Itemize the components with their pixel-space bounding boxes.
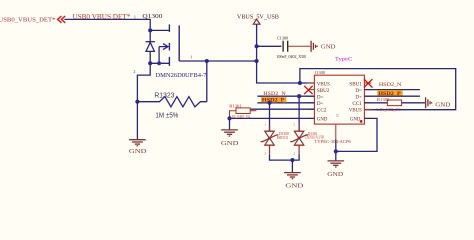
svg-text:VBUS_5V_USB: VBUS_5V_USB [237, 15, 279, 21]
pin GND right [350, 117, 361, 123]
ground GND5 label [285, 184, 304, 190]
wire drain lead [150, 29, 169, 31]
ground GND1 [129, 140, 146, 146]
capacitor C1300 [283, 41, 310, 52]
pin dot GND right [360, 120, 363, 123]
pin stubs left side [307, 83, 314, 118]
node cap junction [255, 44, 259, 48]
svg-text:13: 13 [335, 113, 339, 117]
resistor R1301 box [230, 108, 257, 119]
svg-text:TYPEC-304-ACP6: TYPEC-304-ACP6 [314, 139, 351, 144]
value 1M 5% [155, 110, 179, 119]
wire to GND3 [229, 118, 231, 129]
pin CC1 right [352, 101, 362, 107]
pin 2 D1301 [293, 152, 295, 156]
pin number 1 (gate net) [134, 14, 136, 19]
svg-text:1: 1 [134, 14, 136, 19]
svg-text:C1300: C1300 [277, 35, 288, 40]
svg-text:GND: GND [221, 141, 239, 147]
net label USB0 VBUS DET* [72, 12, 130, 21]
svg-text:GND: GND [317, 117, 328, 123]
svg-text:D=: D= [317, 95, 324, 101]
wire ESD diodes to GND [270, 154, 300, 160]
svg-text:GND: GND [327, 172, 344, 178]
node CC2 resistor GND junction [227, 116, 231, 120]
pin 1 D1301 [293, 123, 295, 127]
body diode of Q1300 [146, 30, 155, 63]
svg-text:DMN26D0UFB4-7: DMN26D0UFB4-7 [155, 73, 206, 79]
no connect X on SBU1 [364, 79, 372, 87]
wire VBUS to connector right pin [300, 69, 456, 110]
pin VBUS left [317, 81, 330, 87]
node VBUS rail junction [255, 59, 259, 63]
wire ESD GND drop [291, 160, 293, 172]
designator R1300 [377, 97, 390, 102]
wire gate to net [179, 60, 207, 62]
diode D1300 TVS [261, 125, 279, 154]
ground GND4 [328, 161, 345, 167]
designator Q1300 [142, 14, 162, 20]
wire VBUS to C1300 [257, 45, 282, 47]
svg-text:D+: D+ [355, 95, 362, 101]
connector J1300 box [314, 75, 364, 124]
wire GND bottom to junction [335, 139, 337, 160]
net label HSD2_P right highlighted [377, 90, 402, 97]
transistor Q1300 arrow [159, 44, 168, 64]
svg-text:5.1K_0402_1%: 5.1K_0402_1% [229, 114, 250, 119]
pin GND left [317, 117, 328, 123]
shell pin mark [335, 113, 339, 117]
node connector GND junction [334, 149, 338, 153]
node D- ESD junction [297, 94, 301, 98]
svg-text:GND: GND [285, 184, 304, 190]
port USB0_VBUS_DET* [0, 16, 55, 23]
pin CC2 left [317, 108, 327, 114]
ground GND2 label [321, 45, 336, 51]
value 5.1K left [229, 114, 250, 119]
ground GND3 label [221, 141, 239, 147]
svg-text:HSD2_P: HSD2_P [262, 99, 285, 104]
wire D- left (HSD2_N) [257, 95, 314, 97]
svg-text:5.1K_0402_1%: 5.1K_0402_1% [376, 107, 400, 112]
wire HSD2_P right [364, 95, 420, 97]
ground GND2 sideways [311, 41, 317, 52]
value ESD5311N left [277, 136, 289, 140]
node VBUS branch junction [298, 81, 302, 85]
wire D1300 stub top [269, 103, 271, 131]
node ESD GND junction [290, 158, 294, 162]
designator R1301 [229, 104, 242, 109]
svg-text:1M ±5%: 1M ±5% [155, 110, 179, 119]
ground GND5 [284, 173, 301, 179]
svg-text:R1300: R1300 [377, 97, 390, 102]
designator D1301 [308, 132, 318, 136]
wire CC2 [250, 108, 314, 110]
svg-text:CC1: CC1 [352, 101, 362, 107]
svg-text:1: 1 [293, 123, 295, 127]
designator R1323 [154, 90, 174, 99]
wire gate net to VBUS rail [207, 60, 257, 62]
pin number 2 of source [133, 69, 135, 74]
node drain junction [148, 28, 152, 32]
wire CC1 to R1300 [364, 102, 387, 104]
designator D1300 [279, 132, 289, 136]
ground GND1 label [129, 149, 147, 155]
svg-text:D+: D+ [317, 101, 324, 107]
value 5.1K right [376, 107, 400, 112]
svg-text:GND: GND [435, 103, 451, 109]
pin number 1 of gate [190, 54, 192, 59]
pin D- right [355, 88, 362, 94]
svg-text:CC2: CC2 [317, 108, 327, 114]
wire source pin2 to R1323 [137, 63, 150, 101]
net label HSD2_N right [379, 83, 402, 88]
pin 1 D1300 [264, 123, 266, 127]
svg-text:2: 2 [293, 152, 295, 156]
wire VBUS rail [257, 24, 315, 83]
ground GND6 sideways [426, 97, 432, 108]
wire source lead [150, 62, 169, 64]
node D+ ESD junction [267, 101, 271, 105]
value 100nF_0402_X5R [276, 54, 306, 59]
wire R1323 to gate net [206, 61, 208, 102]
node bulk junction [157, 61, 161, 65]
wire GND right pin path [336, 118, 377, 151]
svg-text:TypeC: TypeC [335, 57, 353, 63]
diode D1301 TVS [290, 125, 308, 154]
svg-text:SBU1: SBU1 [349, 81, 362, 87]
svg-text:VBUS: VBUS [349, 108, 362, 114]
wire D+ left (HSD2_P) [257, 102, 314, 104]
svg-text:HSD2_N: HSD2_N [263, 92, 286, 97]
pin D+ right [355, 95, 362, 101]
net label HSD2_P left highlighted [261, 97, 286, 104]
svg-text:GND: GND [129, 149, 147, 155]
svg-text:GND: GND [321, 45, 336, 51]
pin D- left [317, 95, 324, 101]
pin VBUS right [349, 108, 362, 114]
net label HSD2_N left [263, 92, 286, 97]
node gate net junction [205, 59, 209, 63]
pin D+ left [317, 101, 324, 107]
svg-text:HSD2_N: HSD2_N [379, 83, 402, 88]
svg-text:2: 2 [133, 69, 135, 74]
svg-text:1: 1 [264, 123, 266, 127]
port chevron arrows [58, 16, 66, 23]
svg-text:USB0_VBUS_DET*: USB0_VBUS_DET* [0, 16, 55, 23]
svg-text:R1301: R1301 [229, 104, 242, 109]
transistor Q1300 body [169, 24, 179, 66]
designator J1300 [315, 70, 326, 75]
pin stubs right side [364, 83, 371, 118]
power port triangle [253, 19, 260, 24]
svg-text:100nF_0402_X5R: 100nF_0402_X5R [276, 54, 306, 59]
pin SBU2 left [317, 88, 330, 94]
ground GND4 label [327, 172, 344, 178]
svg-text:J1300: J1300 [315, 70, 326, 75]
svg-text:2: 2 [264, 152, 266, 156]
svg-text:R1323: R1323 [154, 90, 174, 99]
wire HSD2_N right [364, 89, 420, 91]
wire GND left pin [230, 117, 315, 119]
value DMN26D0UFB4-7 [155, 73, 206, 79]
node R1323 left junction [135, 100, 139, 104]
wire D1301 stub top [298, 96, 300, 131]
ground GND3 [221, 130, 238, 136]
node source junction [148, 61, 152, 65]
wire GND bottom pin stub [335, 124, 337, 139]
wire to GND1 [136, 102, 138, 139]
node D1301 center [298, 137, 301, 140]
svg-text:D=: D= [355, 88, 362, 94]
power port VBUS_5V_USB label [237, 15, 279, 21]
node D1300 center [268, 137, 271, 140]
svg-text:GND: GND [350, 117, 361, 123]
pin SBU1 right [349, 81, 362, 87]
value TYPEC-304-ACP6 [314, 139, 351, 144]
designator C1300 [277, 35, 288, 40]
pin 2 D1300 [264, 152, 266, 156]
wire net USB0_VBUS_DET to drain [64, 19, 150, 30]
no connect X on SBU2 [304, 86, 312, 94]
wire R1300 to GND6 [402, 102, 425, 104]
ground GND6 label [435, 103, 451, 109]
resistor R1323 [137, 97, 206, 107]
svg-text:1: 1 [190, 54, 192, 59]
text TypeC [335, 57, 353, 63]
svg-text:VBUS: VBUS [317, 81, 330, 87]
svg-text:ESD5311: ESD5311 [277, 136, 289, 140]
svg-text:SBU2: SBU2 [317, 88, 330, 94]
resistor R1300 box [387, 100, 401, 106]
value ESD5311N-2/TR [305, 136, 324, 140]
